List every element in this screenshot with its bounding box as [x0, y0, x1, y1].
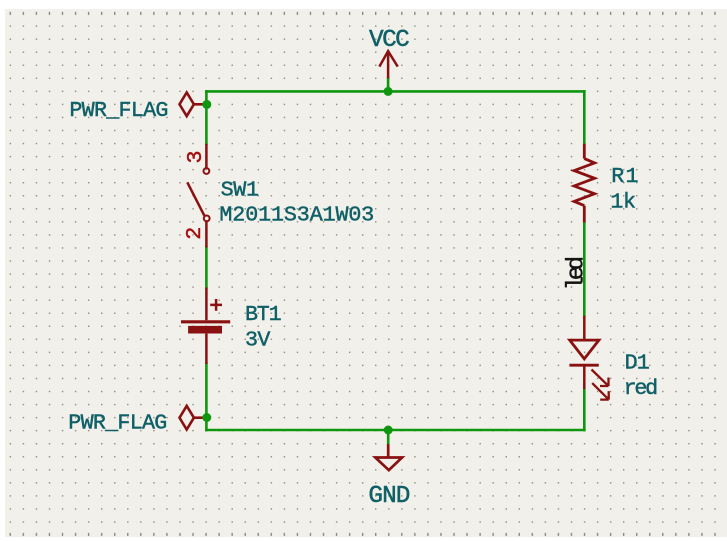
svg-text:SW1: SW1	[221, 177, 259, 202]
svg-text:PWR_FLAG: PWR_FLAG	[68, 411, 167, 436]
svg-text:3: 3	[183, 150, 208, 163]
svg-text:VCC: VCC	[369, 27, 410, 54]
svg-text:red: red	[624, 376, 659, 401]
svg-text:3V: 3V	[245, 328, 270, 353]
svg-text:D1: D1	[625, 350, 650, 375]
svg-text:2: 2	[182, 227, 207, 240]
svg-text:M2011S3A1W03: M2011S3A1W03	[219, 202, 374, 227]
svg-text:1k: 1k	[610, 190, 636, 215]
svg-text:GND: GND	[368, 483, 410, 510]
svg-text:PWR_FLAG: PWR_FLAG	[69, 98, 168, 123]
svg-text:R1: R1	[611, 164, 638, 189]
svg-text:BT1: BT1	[245, 302, 282, 327]
svg-text:led: led	[563, 256, 590, 291]
